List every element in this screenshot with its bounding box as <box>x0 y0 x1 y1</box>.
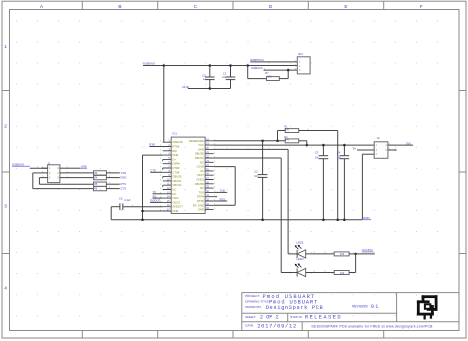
wire top USB5V0 rail <box>143 65 297 67</box>
svg-text:0.1uF: 0.1uF <box>124 199 131 202</box>
svg-text:RTS: RTS <box>121 182 127 186</box>
svg-text:10n: 10n <box>337 156 342 159</box>
net label TxD (IC1 pin30) <box>214 191 228 193</box>
svg-text:RI#: RI# <box>172 149 177 153</box>
wire IC1 pin19 to J2 pin1 <box>214 144 375 146</box>
svg-text:RXD: RXD <box>121 176 127 180</box>
wire GND loop vertical x=142.5 <box>142 155 144 220</box>
node junction VCC3V3 <box>354 253 357 256</box>
wire R9 to VCC node <box>349 272 356 274</box>
svg-text:3: 3 <box>4 204 7 210</box>
resistor R8 <box>334 252 349 256</box>
net label 3V3OUT (IC1 pin 15) <box>150 201 163 203</box>
resistor R3 <box>94 171 107 175</box>
svg-text:RX: RX <box>153 194 157 198</box>
svg-text:DesignSpark PCB: DesignSpark PCB <box>266 305 324 311</box>
wire R5 to label <box>106 183 119 185</box>
svg-text:OSCO: OSCO <box>172 200 180 204</box>
svg-text:D+: D+ <box>353 147 357 151</box>
wire drop to IC1 pin 1 <box>163 66 165 143</box>
wire R4 to label <box>106 177 119 179</box>
svg-text:DBUS5: DBUS5 <box>195 182 204 186</box>
svg-text:DRAWING TITLE:: DRAWING TITLE: <box>245 299 269 303</box>
capacitor C5 <box>209 66 211 78</box>
svg-text:GND1: GND1 <box>196 178 204 182</box>
column tick dividers top/bottom strips <box>81 1 83 9</box>
node junction JP1 pin3 / R7 branch <box>287 69 290 72</box>
svg-text:RTS#: RTS# <box>172 145 179 149</box>
wire R7 branch vertical right <box>287 70 289 79</box>
capacitor C2 <box>262 141 264 175</box>
svg-text:CBUS0: CBUS0 <box>172 175 181 179</box>
svg-text:NC: NC <box>172 188 176 192</box>
no-connect hooks on IC1 left stubs <box>162 159 164 187</box>
svg-text:CTS: CTS <box>121 187 127 191</box>
resistor R4 <box>94 175 107 179</box>
node junction rail/GND loop <box>141 219 144 222</box>
wire IC1 pin20 (CBUS TXLED) to LED1 <box>214 148 289 150</box>
node junction pin18/C2 <box>261 140 264 143</box>
svg-text:D: D <box>269 4 273 10</box>
node junction GND loop/pin17 <box>141 210 144 213</box>
svg-text:01: 01 <box>371 304 379 310</box>
wire USB5V0 to J1 pin1 <box>30 167 48 169</box>
wire J2 pin3 to ground rail <box>362 153 374 155</box>
net label RXD (IC1 pin 2) <box>149 146 162 148</box>
svg-text:J2: J2 <box>377 136 380 140</box>
svg-text:DATE:: DATE: <box>245 324 254 328</box>
row tick dividers left/right strips <box>2 90 10 92</box>
IC1 left pins 1-17 <box>163 142 172 211</box>
svg-text:R7: R7 <box>265 71 269 75</box>
svg-text:LOAD: LOAD <box>197 165 204 169</box>
svg-text:NC: NC <box>172 192 176 196</box>
svg-text:220: 220 <box>340 252 345 256</box>
wire LED1 to resistor <box>306 253 335 255</box>
net label TX (IC1 pin 13) <box>153 193 163 195</box>
svg-text:GND: GND <box>81 164 87 168</box>
svg-text:2 OF 2: 2 OF 2 <box>260 315 279 321</box>
svg-text:IC1: IC1 <box>172 132 177 136</box>
svg-text:OSCI: OSCI <box>172 196 179 200</box>
wire to R7 left <box>248 78 267 80</box>
svg-text:USB5V0: USB5V0 <box>143 61 155 65</box>
wire R3 to label <box>106 172 119 174</box>
svg-text:1K0: 1K0 <box>267 76 272 79</box>
wire R1 branch vertical <box>277 131 279 141</box>
svg-text:VREGIN: VREGIN <box>172 140 182 144</box>
svg-text:RESERVED: RESERVED <box>189 139 204 143</box>
svg-text:CTS#: CTS# <box>172 170 179 174</box>
net label RX (IC1 pin 14) <box>153 197 163 199</box>
node junction rail/C4 bottom <box>343 219 346 222</box>
no-connect arrow IC1 pin31 <box>214 196 216 198</box>
svg-text:3V3OUT: 3V3OUT <box>172 205 183 209</box>
wire J1 pin5 loop to R5 <box>39 177 41 179</box>
resistor R5 <box>94 182 107 186</box>
wire LED2 to resistor <box>306 272 335 274</box>
svg-text:2: 2 <box>4 124 7 130</box>
svg-text:CBUS1: CBUS1 <box>172 179 181 183</box>
wire R8 to VCC node <box>349 253 356 255</box>
svg-text:LED2: LED2 <box>297 257 304 261</box>
wire to VCC3V3 label <box>356 253 375 255</box>
net label CTS (IC1 pin 8) <box>150 171 162 173</box>
svg-text:2017/09/12: 2017/09/12 <box>257 323 297 330</box>
wire to resistor R1 <box>278 130 286 132</box>
svg-text:RTS#: RTS# <box>197 199 204 203</box>
node junction rail/C2 <box>261 219 264 222</box>
wire feed to LED2 <box>281 272 297 274</box>
title block frame <box>242 293 459 331</box>
svg-text:LED1: LED1 <box>297 240 304 244</box>
wire cap ground stub <box>188 88 231 90</box>
svg-text:C2: C2 <box>254 169 258 173</box>
svg-text:E: E <box>344 4 347 10</box>
wire J1 pin3 loop to R6 <box>33 172 42 174</box>
svg-text:DTR#: DTR# <box>172 166 180 170</box>
svg-text:C: C <box>194 4 198 10</box>
svg-text:SHEET:: SHEET: <box>245 315 256 319</box>
wire R2 right <box>299 140 307 142</box>
wire R2 to pin19 net vertical <box>306 141 308 145</box>
no-connect arrow J2 pin5 <box>388 149 395 151</box>
wire IC1 pin 16 to C6 <box>123 206 163 208</box>
wire loop to IC1 pin33 <box>214 204 236 206</box>
svg-text:PROJECT:: PROJECT: <box>245 294 260 298</box>
ground rail GND <box>111 219 362 221</box>
node junction net/C3 top <box>322 144 325 147</box>
capacitor C1 <box>230 66 232 78</box>
svg-text:RTS: RTS <box>220 197 226 201</box>
DesignSpark logo <box>417 295 438 319</box>
wire R1 right to GND drop <box>299 130 338 132</box>
node junction C5 bottom <box>209 87 212 90</box>
ground label GND (J1 pin2) <box>66 167 81 169</box>
svg-text:4: 4 <box>4 286 7 292</box>
svg-text:EP_GND: EP_GND <box>193 203 204 207</box>
svg-text:NC: NC <box>200 186 204 190</box>
node junction R2/pin19 net <box>306 144 309 147</box>
svg-text:TXD: TXD <box>121 171 127 175</box>
IC1 right pins 18-34 <box>205 141 214 210</box>
svg-text:10u: 10u <box>222 76 227 79</box>
wire R6 to label <box>106 188 119 190</box>
capacitor C3 <box>322 145 324 156</box>
svg-text:C1: C1 <box>223 71 227 75</box>
svg-text:C6: C6 <box>119 196 123 200</box>
svg-text:GND: GND <box>182 85 190 89</box>
wire C6 left leg down <box>110 207 112 220</box>
resistor R7 <box>267 77 280 81</box>
wire IC1 pin22 (CBUS RXLED) to LED2 <box>214 157 282 159</box>
svg-text:GND: GND <box>363 216 371 220</box>
svg-text:TEST: TEST <box>197 173 204 177</box>
wire feed to LED1 <box>288 253 297 255</box>
wire J1 pin6 to R4 <box>66 177 94 179</box>
svg-text:RXD: RXD <box>149 143 155 147</box>
wire IC1 pin17 to GND loop <box>143 210 163 212</box>
svg-text:TXD: TXD <box>199 190 204 194</box>
svg-text:USB5V0: USB5V0 <box>12 162 24 166</box>
svg-text:10n: 10n <box>254 175 259 178</box>
svg-text:3V3OUT: 3V3OUT <box>150 199 161 203</box>
wire R7 right <box>279 78 288 80</box>
svg-text:C5: C5 <box>202 73 206 77</box>
svg-text:REVISION:: REVISION: <box>352 305 368 309</box>
svg-text:GND: GND <box>198 147 204 151</box>
node junction rail/C5 <box>209 64 212 67</box>
node junction rail/C1 <box>229 64 232 67</box>
svg-text:TxD: TxD <box>220 189 225 193</box>
wire USB3V3 to JP1 pin 3 <box>264 69 298 71</box>
node junction pin18/R1 branch <box>276 140 279 143</box>
node junction rail/R7 branch <box>246 64 249 67</box>
svg-text:RELEASED: RELEASED <box>305 315 342 321</box>
wire R7 branch vertical left <box>247 66 249 79</box>
svg-text:NC: NC <box>200 160 204 164</box>
wire loop vertical x=235.2 <box>234 167 236 206</box>
svg-text:TX: TX <box>153 190 157 194</box>
resistor R2 <box>285 139 299 143</box>
node junction net/C4 top <box>343 144 346 147</box>
svg-text:DBUS1: DBUS1 <box>195 156 204 160</box>
svg-text:B: B <box>118 4 121 10</box>
svg-text:DRAWN BY:: DRAWN BY: <box>245 305 262 309</box>
svg-text:CTS: CTS <box>150 168 156 172</box>
svg-text:C4: C4 <box>337 151 341 155</box>
wire IC1 pin18 net (reset) <box>214 140 286 142</box>
resistor R1 <box>285 129 299 133</box>
svg-text:D+: D+ <box>172 157 176 161</box>
svg-text:STATUS:: STATUS: <box>290 315 302 319</box>
svg-text:VCC: VCC <box>198 143 204 147</box>
resistor R9 <box>334 271 349 275</box>
svg-text:F: F <box>420 4 423 10</box>
node junction rail/C3 bottom <box>322 219 325 222</box>
svg-text:5V0: 5V0 <box>406 141 411 145</box>
svg-text:DSR#: DSR# <box>172 162 180 166</box>
svg-text:GND: GND <box>172 153 178 157</box>
net label D+ (J2 pin2) <box>357 149 374 151</box>
wire USBP5V0 to JP1 pin 1 <box>250 61 297 63</box>
node junction rail/IC drop <box>163 64 166 67</box>
net label RTS (IC1 pin32) <box>214 200 228 202</box>
svg-text:USB3V3: USB3V3 <box>251 66 263 70</box>
svg-text:DTR#: DTR# <box>197 195 205 199</box>
svg-text:DESIGNSPARK PCB available for: DESIGNSPARK PCB available for FREE at ww… <box>312 324 434 328</box>
capacitor C4 <box>343 145 345 156</box>
resistor R6 <box>94 186 107 190</box>
svg-text:DBUS0: DBUS0 <box>195 152 204 156</box>
wire VCC riser <box>355 254 357 273</box>
svg-text:47K: 47K <box>285 140 290 142</box>
svg-text:JP1: JP1 <box>298 52 304 56</box>
svg-text:10n: 10n <box>315 156 320 159</box>
svg-text:CBUS2: CBUS2 <box>172 183 181 187</box>
svg-text:C3: C3 <box>315 151 319 155</box>
svg-text:GND: GND <box>172 209 178 213</box>
svg-text:GND: GND <box>198 208 204 212</box>
wire GND drop x=337.7 <box>337 131 339 220</box>
wire J1 pin4 to R3 <box>66 172 94 174</box>
svg-text:AC: AC <box>200 169 204 173</box>
svg-text:47K: 47K <box>285 129 290 131</box>
svg-text:VCC3V3: VCC3V3 <box>362 248 373 252</box>
svg-text:1: 1 <box>4 44 7 50</box>
wire IC1 pin24 loop right <box>214 166 236 168</box>
node junction rail/GND drop <box>336 219 339 222</box>
wire J2 pin4 VBUS out <box>388 144 413 146</box>
svg-text:220: 220 <box>340 271 345 275</box>
wire IC1 pin4 GND to left loop <box>143 154 163 156</box>
